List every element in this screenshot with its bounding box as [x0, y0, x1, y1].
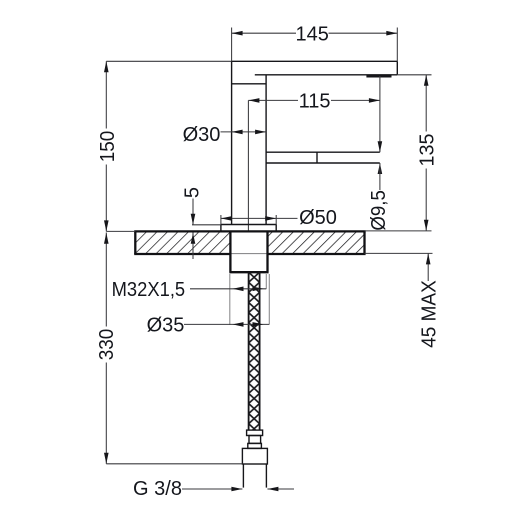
spout top edge: [266, 151, 380, 153]
countertop left edge: [134, 231, 136, 254]
aerator slot under lever: [366, 75, 391, 77]
dimension M32X1,5 line: [190, 288, 266, 290]
dimension 115 arrows: [248, 98, 259, 103]
svg-text:115: 115: [299, 91, 331, 113]
faucet body column right edge: [265, 75, 267, 225]
countertop top surface: [134, 230, 365, 232]
dimension 45 MAX line: [427, 253, 429, 281]
svg-text:330: 330: [96, 329, 118, 361]
dimension 135 extension bottom: [365, 230, 432, 232]
dimension 150 text: [97, 131, 119, 163]
countertop hatch left: [136, 233, 229, 254]
thread right edge: [265, 464, 267, 488]
dimension diam50 extensions: [220, 215, 222, 225]
faucet lever top edge: [232, 60, 398, 62]
dimension diam9,5 text: [368, 190, 390, 231]
dimension 135 line: [425, 75, 427, 132]
hose left edge: [248, 272, 250, 430]
base flange top: [221, 224, 276, 226]
dimension diam35 arrows: [233, 322, 244, 327]
hose nut G3/8: [242, 448, 267, 464]
countertop right edge: [363, 231, 365, 254]
thread left edge: [242, 464, 244, 488]
base flange left edge: [220, 225, 222, 232]
dimension 150 arrows: [104, 61, 109, 72]
countertop top extension left: [106, 230, 135, 232]
svg-text:150: 150: [97, 131, 119, 163]
dimension diam30 arrows: [232, 130, 243, 135]
dimension 330 arrows: [104, 233, 109, 244]
faucet lever right edge: [396, 61, 398, 75]
dimension 135 arrows: [424, 75, 429, 86]
svg-text:135: 135: [416, 134, 438, 167]
svg-text:Ø35: Ø35: [147, 314, 185, 336]
svg-text:Ø9,5: Ø9,5: [368, 190, 390, 231]
dimension G3/8 left line: [182, 488, 242, 490]
dimension diam35 line: [184, 323, 269, 325]
mounting shank / nut left edge: [229, 231, 231, 271]
svg-text:145: 145: [296, 23, 329, 45]
svg-text:Ø30: Ø30: [183, 124, 221, 146]
spout bottom edge: [266, 162, 380, 164]
dimension 5 upper line: [192, 199, 194, 225]
dimension 150 line: [105, 61, 107, 128]
dimension 45 MAX arrow: [426, 253, 431, 264]
dimension 330 bottom extension: [106, 463, 242, 465]
dimension 115 line: [248, 99, 298, 101]
flexible hose braid: [249, 272, 260, 430]
countertop hatch right: [268, 233, 363, 254]
extension line from lever top to 150 dim: [106, 60, 231, 62]
dimension M32X1,5 extensions: [229, 274, 231, 325]
dimension diam50 line: [221, 217, 298, 219]
faucet centerline: [247, 100, 249, 231]
dimension M32X1,5 arrows: [233, 287, 244, 292]
hose end flare: [248, 443, 262, 448]
dimension 145 extension left: [231, 28, 233, 62]
countertop bottom across hole: [230, 253, 267, 255]
base flange right edge: [275, 225, 277, 232]
dimension 145 extension right: [396, 28, 398, 62]
dimension 45 MAX text: [418, 280, 440, 348]
dimension G3/8 right line: [267, 488, 294, 490]
dimension 145 line: [232, 32, 296, 34]
dimension 145 arrows: [232, 31, 243, 36]
mounting shank / nut right edge: [266, 231, 268, 271]
countertop bottom left: [134, 253, 230, 255]
dimension diam35 extension right: [268, 274, 270, 324]
dimension diam9,5 lower line: [379, 163, 381, 190]
dimension 330 line: [105, 233, 107, 327]
dimension 5 lower line: [192, 233, 194, 260]
svg-text:5: 5: [182, 187, 204, 198]
dimension 45 MAX extension: [365, 252, 433, 254]
dimension diam50 arrows: [221, 216, 232, 221]
countertop bottom right: [268, 253, 366, 255]
svg-text:Ø50: Ø50: [299, 207, 337, 229]
dimension 5 extension: [192, 224, 221, 226]
lever pivot block bottom: [232, 83, 267, 85]
dimension diam30 leader: [221, 131, 267, 133]
dimension 115 / diam 9,5 extension: [379, 76, 381, 152]
dimension 135 extension top: [397, 74, 431, 76]
mounting nut bottom: [229, 271, 268, 273]
hose right edge: [259, 272, 261, 430]
spout divider: [316, 152, 318, 163]
faucet body column left edge: [231, 61, 233, 224]
dimension diam9,5 arrows: [378, 141, 383, 152]
hose end neck: [249, 436, 261, 444]
dimension G3/8 arrows: [231, 487, 242, 492]
dimension 5 arrows: [191, 214, 196, 225]
dimension 330 text: [96, 329, 118, 361]
svg-text:G 3/8: G 3/8: [133, 478, 182, 500]
svg-text:M32X1,5: M32X1,5: [112, 279, 186, 301]
hose end collar: [247, 430, 263, 435]
dimension 5 text: [182, 187, 204, 198]
svg-text:45 MAX: 45 MAX: [418, 280, 440, 348]
faucet lever bottom edge: [255, 74, 397, 76]
dimension 135 text: [416, 134, 438, 167]
